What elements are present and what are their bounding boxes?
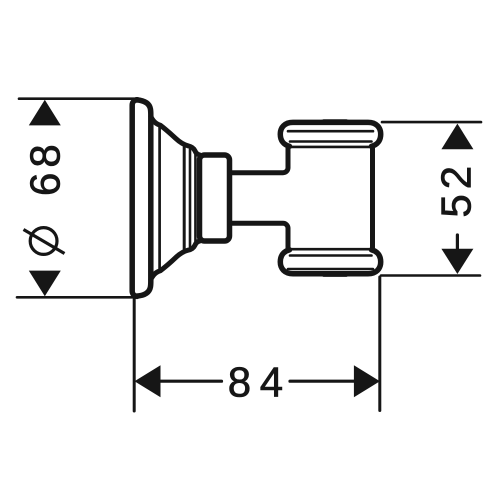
body left edge lower segment: [286, 230, 291, 249]
bell ridge line E: [183, 147, 186, 249]
dim52 bottom extension line: [381, 274, 480, 277]
dim52 arrow up: [441, 124, 473, 150]
top flange outline: [280, 122, 380, 146]
dim84 arrow right: [354, 365, 380, 397]
diameter symbol: [24, 228, 65, 255]
escutcheon rim face: [132, 100, 137, 297]
top flange inner line A: [288, 130, 373, 133]
bottom flange outline: [280, 250, 380, 274]
bell ridge line C: [158, 127, 161, 270]
dim52 arrow down: [441, 249, 473, 274]
bottom flange top line: [291, 248, 372, 251]
collar: [200, 155, 230, 241]
svg-text:52: 52: [433, 161, 480, 218]
bottom flange inner line B: [290, 254, 372, 257]
body right edge: [370, 147, 375, 249]
svg-text:68: 68: [22, 139, 69, 196]
dim68 arrow down: [29, 271, 61, 297]
spindle housing top line: [230, 147, 289, 173]
escutcheon bell top contour: [151, 117, 200, 155]
bottom flange inner line A: [288, 268, 373, 271]
bottom flange spindle bump: [321, 274, 349, 275]
dim68 top extension line: [19, 97, 135, 100]
top flange bottom line: [291, 146, 372, 149]
dim68 bottom extension line: [17, 296, 135, 299]
bell ridge line G: [194, 153, 197, 243]
dim84 line left segment: [160, 380, 222, 383]
bell ridge line F: [189, 150, 192, 247]
dim84 left extension line: [133, 299, 136, 411]
top flange spindle bump: [321, 121, 349, 122]
svg-text:84: 84: [228, 359, 292, 406]
spindle housing bottom line: [230, 223, 289, 249]
escutcheon bell bottom contour: [151, 241, 200, 279]
top flange inner line B: [290, 140, 372, 143]
dim84 arrow left: [135, 365, 161, 397]
dim52 stub line: [456, 235, 459, 249]
dim52 top extension line: [382, 121, 481, 124]
dim84 line right segment: [290, 380, 356, 383]
dim84 right extension line: [378, 277, 381, 411]
escutcheon outer dome edge: [137, 100, 151, 296]
dim68 arrow up: [29, 100, 61, 126]
